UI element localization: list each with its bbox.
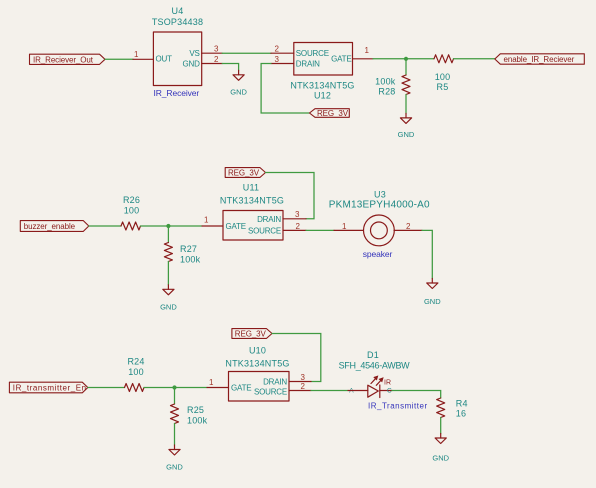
wire speaker pin 2 to ground (422, 230, 432, 278)
wire flag to U4 pin1 (105, 58, 133, 60)
wire R26 to junction and on to U11 (141, 225, 203, 227)
svg-text:NTK3134NT5G: NTK3134NT5G (220, 196, 284, 206)
svg-text:SOURCE: SOURCE (254, 388, 287, 397)
svg-text:3: 3 (275, 55, 280, 64)
svg-text:U3: U3 (374, 190, 386, 200)
svg-text:REG_3V: REG_3V (235, 330, 267, 339)
svg-text:IR_Transmitter: IR_Transmitter (368, 401, 428, 410)
svg-text:2: 2 (301, 382, 306, 391)
svg-text:DRAIN: DRAIN (263, 378, 287, 387)
svg-text:GND: GND (432, 453, 449, 462)
svg-text:2: 2 (275, 45, 280, 54)
wire flag to R26 (89, 225, 121, 227)
hierarchical label REG_3V (bottom) (232, 329, 272, 339)
wire R27 to ground (167, 262, 169, 285)
svg-text:IR: IR (384, 379, 391, 386)
svg-text:speaker: speaker (363, 249, 393, 259)
svg-text:GND: GND (424, 297, 441, 306)
svg-text:SOURCE: SOURCE (248, 227, 281, 236)
svg-text:1: 1 (209, 378, 214, 387)
U12 pin 3 (DRAIN) (271, 55, 294, 64)
svg-text:OUT: OUT (156, 54, 173, 63)
svg-text:100: 100 (128, 367, 144, 377)
IC U4 TSOP34438 body (153, 32, 201, 86)
hierarchical label REG_3V (middle) (225, 168, 265, 178)
resistor R27 100k (164, 243, 200, 265)
wire LED cathode to R4 (392, 391, 441, 399)
resistor R26 100 (121, 195, 141, 230)
svg-text:R4: R4 (456, 399, 468, 409)
svg-text:1: 1 (204, 216, 209, 225)
hierarchical label REG_3V (top) (310, 109, 350, 119)
svg-text:GATE: GATE (231, 384, 251, 393)
svg-text:GND: GND (160, 302, 177, 311)
svg-text:NTK3134NT5G: NTK3134NT5G (290, 81, 354, 91)
svg-text:R24: R24 (127, 357, 144, 367)
svg-text:GND: GND (398, 130, 415, 139)
svg-text:D1: D1 (367, 350, 379, 360)
U4 pin 3 (VS) (202, 45, 223, 54)
junction node (middle) (166, 224, 170, 228)
resistor R24 100 (125, 357, 145, 392)
U11 pin 1 (GATE) (202, 216, 223, 227)
svg-text:SOURCE: SOURCE (296, 49, 329, 58)
U4 pin 2 (GND) (202, 55, 223, 64)
svg-text:100k: 100k (187, 415, 208, 425)
resistor R25 100k (171, 404, 208, 425)
wire U10 source to LED anode (311, 390, 348, 392)
resistor R5 100 (434, 55, 454, 92)
svg-text:TSOP34438: TSOP34438 (152, 17, 203, 27)
U10 pin 1 (GATE) (207, 378, 229, 388)
ground symbol (under R27) (160, 285, 177, 312)
svg-text:SFH_4546-AWBW: SFH_4546-AWBW (339, 360, 411, 370)
U11 pin 2 (SOURCE) (283, 222, 306, 231)
junction node (404, 57, 408, 61)
svg-text:DRAIN: DRAIN (257, 215, 281, 224)
svg-text:GATE: GATE (226, 222, 246, 231)
transistor U12 NTK3134NT5G body (294, 43, 353, 76)
svg-text:enable_IR_Reciever: enable_IR_Reciever (504, 55, 575, 64)
wire junction to R28 (405, 59, 407, 75)
svg-text:1: 1 (342, 222, 347, 231)
svg-text:IR_Receiver: IR_Receiver (154, 88, 200, 98)
wire flag to R24 (88, 387, 125, 389)
svg-text:REG_3V: REG_3V (317, 109, 349, 118)
svg-text:2: 2 (296, 222, 301, 231)
svg-text:IR_transmitter_En: IR_transmitter_En (13, 384, 87, 393)
svg-text:3: 3 (295, 210, 300, 219)
svg-text:R5: R5 (437, 82, 449, 92)
wire R25 to ground (174, 424, 176, 446)
svg-text:R25: R25 (187, 405, 204, 415)
svg-text:R26: R26 (123, 195, 140, 205)
ground symbol (under R28) (398, 113, 415, 138)
wire R28 to ground (405, 95, 407, 114)
svg-text:buzzer_enable: buzzer_enable (24, 222, 76, 231)
wire REG_3V to U10 drain (272, 334, 321, 382)
svg-text:3: 3 (301, 373, 306, 382)
LED emission arrows (371, 378, 376, 384)
U12 pin 2 (SOURCE) (271, 45, 294, 54)
transistor U10 NTK3134NT5G body (229, 372, 290, 402)
wire R5 to enable flag (454, 58, 495, 60)
svg-text:IR_Reciever_Out: IR_Reciever_Out (33, 56, 94, 65)
U12 pin 1 (GATE) (353, 46, 374, 59)
wire junction to R5 (406, 58, 434, 60)
wire U11 source to speaker (306, 229, 334, 231)
resistor R28 100k (375, 75, 410, 97)
wire R24 to junction and on to U10 (144, 387, 207, 389)
svg-text:VS: VS (189, 49, 199, 58)
svg-text:REG_3V: REG_3V (228, 169, 260, 178)
svg-text:GND: GND (166, 463, 183, 472)
transistor U11 NTK3134NT5G body (223, 211, 283, 241)
svg-text:2: 2 (406, 222, 411, 231)
hierarchical label IR_transmitter_En (9, 382, 87, 393)
hierarchical label buzzer_enable (20, 221, 89, 232)
LED D1 SFH_4546-AWBW (348, 376, 392, 398)
svg-text:U10: U10 (249, 346, 266, 356)
svg-text:GND: GND (230, 87, 247, 96)
svg-text:NTK3134NT5G: NTK3134NT5G (225, 358, 289, 368)
svg-text:100: 100 (124, 205, 140, 215)
svg-text:GND: GND (183, 59, 201, 68)
svg-text:GATE: GATE (331, 54, 351, 63)
wire junction down to R27 (167, 226, 169, 243)
hierarchical label enable_IR_Reciever (495, 54, 585, 64)
speaker U3 body (364, 215, 395, 246)
svg-text:U12: U12 (314, 91, 331, 101)
svg-text:R27: R27 (180, 244, 197, 254)
svg-text:100k: 100k (180, 255, 201, 265)
wire REG_3V to U11 drain (266, 173, 315, 219)
U10 pin 3 (DRAIN) (289, 373, 311, 382)
wire U4 VS to U12 source (222, 52, 271, 54)
svg-text:16: 16 (456, 409, 466, 419)
wire U4 GND to ground (222, 64, 238, 71)
svg-text:U11: U11 (243, 182, 259, 192)
junction node (bottom) (172, 385, 176, 389)
svg-text:U4: U4 (172, 6, 184, 16)
svg-text:1: 1 (365, 46, 370, 55)
svg-text:R28: R28 (378, 87, 395, 97)
speaker U3 pin 1 (334, 222, 363, 231)
wire U12 gate to junction (373, 58, 406, 60)
svg-text:100k: 100k (375, 77, 396, 87)
ground symbol (top, under U4 GND) (230, 70, 247, 96)
svg-text:100: 100 (435, 72, 451, 82)
speaker U3 pin 2 (394, 222, 422, 231)
ground symbol (under speaker) (424, 279, 441, 307)
svg-text:C: C (387, 387, 392, 394)
U10 pin 2 (SOURCE) (289, 382, 311, 391)
svg-text:PKM13EPYH4000-A0: PKM13EPYH4000-A0 (329, 200, 430, 211)
svg-text:DRAIN: DRAIN (296, 60, 320, 69)
svg-text:1: 1 (134, 50, 139, 59)
wire R4 to ground (440, 418, 442, 434)
U11 pin 3 (DRAIN) (283, 210, 306, 219)
wire U12 drain to REG_3V label (261, 64, 309, 114)
resistor R4 16 (437, 398, 468, 419)
U4 pin 1 (133, 50, 153, 59)
ground symbol (under R25) (166, 445, 183, 472)
hierarchical label IR_Reciever_Out (30, 54, 106, 64)
svg-text:3: 3 (214, 45, 219, 54)
svg-text:2: 2 (214, 55, 219, 64)
wire junction down to R25 (174, 388, 176, 405)
ground symbol (under R4) (432, 434, 449, 463)
